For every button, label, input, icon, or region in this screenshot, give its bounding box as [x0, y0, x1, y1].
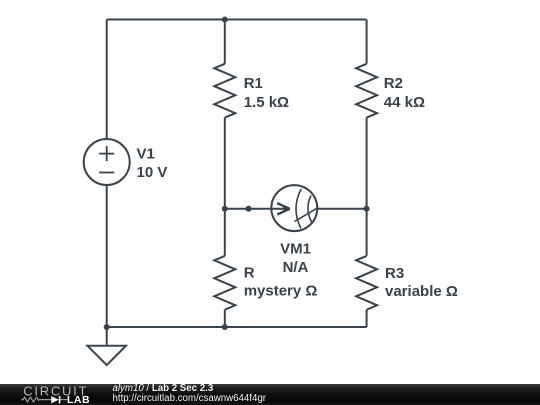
- resistor R1: [214, 64, 235, 118]
- voltmeter VM1: [271, 185, 317, 231]
- svg-text:mystery Ω: mystery Ω: [244, 283, 318, 300]
- resistor R mystery: [214, 256, 235, 310]
- svg-text:variable Ω: variable Ω: [385, 283, 458, 300]
- node middle voltmeter junction: [222, 206, 228, 212]
- svg-text:R2: R2: [384, 75, 403, 92]
- svg-text:R3: R3: [385, 265, 404, 282]
- voltage source V1: [84, 139, 130, 185]
- svg-text:44 kΩ: 44 kΩ: [384, 94, 425, 111]
- ground: [88, 327, 126, 365]
- node bottom left junction: [104, 324, 110, 330]
- svg-text:LAB: LAB: [67, 394, 90, 405]
- wire middle column mid: [224, 118, 226, 209]
- svg-text:1.5 kΩ: 1.5 kΩ: [244, 94, 289, 111]
- svg-text:V1: V1: [137, 146, 155, 163]
- wire R bottom lead: [224, 310, 226, 327]
- svg-text:R: R: [244, 265, 255, 282]
- wire left column lower: [106, 185, 108, 327]
- svg-text:N/A: N/A: [283, 259, 309, 276]
- node middle top junction: [222, 17, 228, 23]
- wire top rail: [107, 19, 367, 21]
- resistor R2: [356, 64, 377, 118]
- footer title text: [113, 384, 214, 394]
- node right voltmeter junction: [364, 206, 370, 212]
- wire bottom rail: [107, 326, 367, 328]
- wire left column upper: [106, 20, 108, 140]
- CircuitLab logo: [0, 384, 100, 405]
- footer url text: [113, 394, 266, 404]
- node voltmeter left terminal: [246, 206, 252, 212]
- wire middle column top lead: [224, 20, 226, 64]
- wire R3 bottom lead: [366, 310, 368, 327]
- wire middle column to R lead: [224, 209, 226, 256]
- svg-text:10 V: 10 V: [137, 164, 168, 181]
- wire right column top lead: [366, 20, 368, 64]
- resistor R3: [356, 256, 377, 310]
- svg-text:R1: R1: [244, 75, 263, 92]
- svg-text:VM1: VM1: [280, 240, 311, 257]
- wire right column mid: [366, 118, 368, 256]
- wire voltmeter row right: [317, 208, 366, 210]
- node middle bottom junction: [222, 324, 228, 330]
- wire voltmeter row left: [225, 208, 272, 210]
